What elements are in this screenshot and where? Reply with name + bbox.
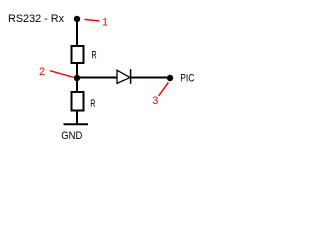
red callout leader for pin 2 xyxy=(50,71,74,78)
diode D1 triangle (anode side) xyxy=(117,70,130,83)
node 1 (RS232 input terminal) xyxy=(74,16,80,22)
ground bar xyxy=(64,123,89,125)
svg-text:1: 1 xyxy=(102,16,108,28)
resistor R (pulldown, bottom) xyxy=(72,92,84,111)
svg-text:GND: GND xyxy=(61,130,82,142)
svg-text:R: R xyxy=(91,49,96,61)
wire node 2 to resistor R (bottom) xyxy=(76,78,78,92)
svg-text:RS232 - Rx: RS232 - Rx xyxy=(8,13,64,25)
wire resistor R (bottom) to ground xyxy=(76,110,78,124)
node 3 (PIC terminal) xyxy=(167,75,173,81)
diode D1 cathode bar xyxy=(130,69,132,84)
wire node 1 to resistor R (top) xyxy=(76,20,78,46)
svg-text:2: 2 xyxy=(39,66,45,78)
wire node 2 to diode anode xyxy=(77,77,117,79)
wire diode cathode to node 3 xyxy=(131,77,171,79)
junction node 2 xyxy=(74,75,80,81)
svg-text:R: R xyxy=(90,98,95,110)
svg-text:PIC: PIC xyxy=(180,72,194,84)
wire resistor R (top) to node 2 xyxy=(76,63,78,78)
red callout leader for pin 1 xyxy=(85,19,100,21)
resistor R (series, top) xyxy=(72,46,84,63)
red callout leader for pin 3 xyxy=(159,82,169,96)
svg-text:3: 3 xyxy=(152,95,158,107)
